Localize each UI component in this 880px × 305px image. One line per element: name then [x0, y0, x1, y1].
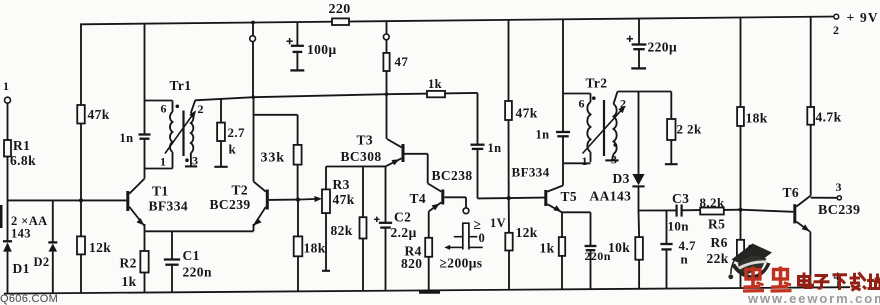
capacitor 100u supply — [286, 22, 336, 70]
svg-text:k: k — [229, 142, 237, 157]
svg-text:3: 3 — [836, 180, 842, 194]
wire 4.7k to T6 collector — [810, 125, 812, 196]
label 10k — [608, 240, 630, 255]
svg-text:6: 6 — [579, 97, 585, 111]
svg-text:2: 2 — [198, 102, 204, 116]
svg-text:+ 9V: + 9V — [847, 10, 879, 25]
potentiometer R3 47k — [322, 177, 355, 213]
resistor 10k detector load — [635, 211, 643, 289]
wiper arrow R3 — [298, 196, 322, 202]
resistor 1k T5 emitter — [540, 212, 566, 289]
svg-text:C2: C2 — [394, 210, 411, 225]
svg-text:220n: 220n — [183, 265, 212, 280]
svg-text:2.2μ: 2.2μ — [391, 225, 417, 240]
svg-text:D1: D1 — [13, 261, 30, 276]
svg-text:1k: 1k — [122, 274, 137, 289]
svg-text:R5: R5 — [708, 217, 725, 232]
wire node to 47 — [386, 40, 388, 53]
ground symbol R4 — [419, 291, 440, 294]
wire R4 to ground — [428, 257, 430, 292]
svg-text:10k: 10k — [608, 240, 630, 255]
svg-text:2: 2 — [833, 23, 839, 37]
svg-text:BF334: BF334 — [149, 199, 189, 214]
wire Tr2 pin6 top — [563, 93, 591, 95]
wire 12k to ground rail — [80, 254, 82, 293]
svg-text:33k: 33k — [261, 151, 286, 166]
resistor 82k — [331, 166, 367, 291]
resistor 33k — [261, 145, 302, 166]
resistor 47k T5 bias — [505, 101, 538, 121]
svg-text:1k: 1k — [428, 77, 442, 91]
wire T3 emitter rail — [326, 165, 386, 167]
wire tank C to pin1 bus — [144, 139, 146, 179]
capacitor 1n Tr2 tank — [536, 94, 571, 164]
watermark www.eeworm.com — [747, 291, 880, 305]
wire mid collector rail — [195, 93, 478, 100]
transformer Tr1 secondary — [191, 100, 195, 166]
svg-text:≥200μs: ≥200μs — [440, 256, 483, 271]
transformer Tr1 core — [182, 111, 184, 157]
wire supply to 47k — [80, 24, 82, 105]
wire ground bottom rail — [4, 287, 850, 293]
wire T5 base — [478, 197, 545, 200]
svg-text:6: 6 — [161, 102, 167, 116]
svg-text:0: 0 — [479, 231, 486, 245]
junction T2 base — [296, 198, 300, 202]
wire mid rail to T2 collector — [253, 97, 255, 181]
node 4 ground terminal — [834, 269, 840, 287]
svg-text:47k: 47k — [516, 106, 538, 121]
svg-text:1V: 1V — [490, 216, 506, 230]
wire Tr1 pin6 top — [145, 100, 173, 102]
svg-text:82k: 82k — [331, 223, 353, 238]
svg-text:8.2k: 8.2k — [700, 195, 725, 210]
wire 33k feed — [254, 115, 298, 145]
svg-text:220n: 220n — [585, 249, 611, 263]
pin 6 Tr1 — [161, 102, 167, 116]
svg-text:D2: D2 — [34, 255, 50, 269]
wire Tr2 pin1 bottom — [563, 162, 591, 164]
tuning arrow Tr1 — [165, 110, 196, 153]
diode D3 AA143 — [590, 92, 645, 211]
svg-text:BC239: BC239 — [818, 203, 860, 218]
transistor T6 BC239 — [783, 185, 861, 232]
wire T6 collector out — [811, 197, 838, 199]
transistor T4 BC238 — [410, 168, 473, 211]
pin 3 Tr1 — [192, 154, 198, 168]
capacitor 1n T5 base — [471, 93, 502, 198]
wire T1 T2 emitter bus — [145, 230, 254, 232]
capacitor 220u supply — [627, 19, 677, 69]
wire T6 emitter to ground — [809, 232, 811, 288]
resistor 2.2k Tr2 damp — [665, 92, 702, 165]
svg-text:4.7k: 4.7k — [816, 110, 842, 125]
wire R6 to ground rail — [740, 257, 742, 288]
svg-text:T3: T3 — [357, 133, 374, 148]
pin 2 Tr1 — [198, 102, 204, 116]
svg-text:R3: R3 — [333, 177, 350, 192]
transistor T1 BF334 — [126, 179, 188, 232]
resistor 12k T5 bias — [505, 225, 538, 251]
resistor R1 6.8k — [4, 138, 36, 168]
wire base bus T1 — [8, 199, 127, 201]
svg-text:100μ: 100μ — [307, 42, 337, 57]
resistor R2 1k emitter — [120, 231, 149, 292]
node 1 input terminal — [3, 79, 11, 103]
wire 47 to mid rail — [386, 71, 388, 94]
svg-text:1k: 1k — [540, 241, 555, 256]
wire T3 base to T4 collector — [405, 154, 428, 184]
svg-text:47k: 47k — [88, 107, 110, 122]
resistor 18k T6 bias — [737, 107, 768, 126]
wire mid rail to T3 collector — [386, 94, 388, 139]
wire R1 to base bus — [7, 157, 9, 242]
junction T1 base — [79, 198, 83, 202]
svg-text:BF334: BF334 — [512, 165, 550, 180]
Tr1 pin3 stub — [185, 165, 197, 167]
wire junction to R6 — [740, 210, 742, 240]
capacitor C2 2.2u — [374, 166, 417, 290]
svg-text:Q606.COM: Q606.COM — [0, 293, 58, 305]
pin 1 Tr2 — [582, 154, 588, 168]
svg-text:2 2k: 2 2k — [677, 122, 702, 137]
svg-text:1n: 1n — [488, 141, 502, 155]
svg-text:1: 1 — [582, 154, 588, 168]
resistor 47k bias — [77, 105, 110, 124]
svg-text:2.7: 2.7 — [228, 125, 246, 140]
polarity dot Tr1 pin6 — [176, 105, 180, 109]
capacitor 220n T5 — [585, 212, 611, 289]
wire Tr1 pin1 bottom — [145, 168, 173, 170]
svg-text:BC239: BC239 — [210, 197, 251, 212]
wire supply to Tr2 pin6 — [562, 19, 564, 93]
diode D1 AA143 — [3, 241, 30, 276]
label Tr2 — [586, 76, 608, 91]
capacitor C3 10n — [668, 191, 690, 234]
svg-text:T5: T5 — [561, 189, 578, 204]
wire supply to tank C — [144, 24, 146, 135]
resistor 2.7k Tr1 damp — [214, 99, 245, 167]
wire R5 to junction — [724, 209, 741, 211]
wire rail to node circle — [252, 23, 254, 36]
svg-text:1n: 1n — [120, 131, 134, 145]
svg-text:220μ: 220μ — [648, 40, 678, 55]
wire junction to 12k — [80, 200, 82, 236]
resistor R5 8.2k — [700, 195, 726, 232]
polarity dot Tr2 pin6 — [592, 96, 596, 100]
pin 2 Tr2 — [620, 97, 626, 111]
svg-text:T1: T1 — [152, 184, 169, 199]
wire T6 base — [741, 210, 794, 212]
svg-text:1: 1 — [160, 155, 166, 169]
resistor 220 supply — [329, 2, 351, 25]
svg-text:1: 1 — [3, 79, 9, 93]
wire 18k to ground rail — [297, 256, 299, 291]
watermark chong chong red glyphs — [743, 267, 792, 292]
watermark Q606.COM — [0, 293, 58, 305]
wire T4 base input — [444, 197, 466, 208]
wire rail to 47 node — [386, 21, 388, 34]
svg-text:Tr2: Tr2 — [586, 76, 608, 91]
resistor R6 22k — [707, 235, 745, 266]
wire D2 branch upper — [52, 200, 54, 242]
capacitor 1n Tr1 tank — [120, 131, 151, 145]
resistor 18k T2 — [294, 236, 326, 256]
junction 47 mid rail — [385, 92, 389, 96]
resistor 1k mid rail — [427, 77, 445, 97]
watermark dianzi xiazaizhan red text — [799, 273, 880, 291]
svg-text:BC308: BC308 — [341, 149, 382, 164]
svg-text:820: 820 — [401, 256, 422, 271]
wire 47k to T5 base — [508, 120, 510, 198]
wire 18k to base junction — [740, 126, 742, 210]
svg-text:www.eeworm.com: www.eeworm.com — [747, 291, 880, 305]
svg-text:AA143: AA143 — [590, 189, 632, 204]
svg-text:BC238: BC238 — [432, 168, 473, 183]
wire 33k to base junction — [297, 165, 299, 200]
pin 3 Tr2 — [611, 153, 617, 167]
transformer Tr2 primary — [587, 94, 590, 163]
svg-text:1n: 1n — [536, 128, 550, 142]
junction mid rail — [252, 95, 256, 99]
transformer Tr2 core — [603, 100, 605, 156]
junction top rail collector feed — [251, 21, 255, 25]
svg-text:C3: C3 — [672, 191, 689, 206]
resistor 47 decoupling — [383, 53, 408, 71]
wire T5 collector — [562, 163, 564, 185]
svg-text:47: 47 — [395, 54, 409, 69]
svg-text:18k: 18k — [304, 241, 326, 256]
svg-text:Tr1: Tr1 — [170, 78, 192, 93]
watermark eeworm cap logo — [728, 244, 772, 280]
svg-text:R2: R2 — [120, 256, 137, 271]
pulse waveform glyph — [440, 216, 507, 271]
svg-text:143: 143 — [11, 227, 31, 241]
capacitor C1 220n — [164, 231, 212, 292]
svg-text:6.8k: 6.8k — [10, 153, 36, 168]
svg-text:≥: ≥ — [474, 217, 482, 232]
junction T6 base — [738, 208, 742, 212]
transformer Tr2 secondary — [612, 92, 618, 161]
Tr2 pin3 stub — [605, 159, 618, 161]
resistor 4.7k T6 load — [807, 107, 841, 125]
wire R3 top — [325, 167, 327, 190]
wire detector node — [639, 209, 677, 211]
diode D2 AA143 — [34, 242, 58, 269]
wire T4 emitter to R4 — [428, 211, 430, 237]
svg-text:T6: T6 — [783, 185, 800, 200]
svg-text:22k: 22k — [707, 251, 729, 266]
svg-text:T4: T4 — [410, 191, 427, 206]
wire +9V top supply rail — [80, 17, 836, 25]
svg-text:18k: 18k — [746, 111, 768, 126]
svg-text:220: 220 — [329, 2, 351, 17]
wire supply to 18k right — [740, 18, 742, 108]
wire C3 to R5 — [682, 209, 701, 211]
wire supply to 47k right — [508, 20, 510, 101]
svg-text:n: n — [681, 252, 689, 267]
wire 47k to junction — [80, 124, 82, 201]
wire node to mid rail — [252, 42, 254, 98]
svg-text:47k: 47k — [333, 192, 355, 207]
wire D2 to ground rail — [52, 252, 54, 294]
wire terminal1 to R1 — [7, 103, 9, 140]
transistor T5 BF334 — [512, 165, 578, 213]
transistor T3 BC308 — [341, 133, 405, 167]
label 2xAA143 — [11, 214, 48, 241]
wire R3 bottom — [322, 213, 330, 271]
wire base to 12k right — [508, 198, 510, 233]
pin 1 Tr1 — [160, 155, 166, 169]
wire D1 to ground rail — [7, 252, 9, 294]
tuning arrow Tr2 — [583, 106, 626, 154]
svg-text:C1: C1 — [183, 248, 200, 263]
junction T5 base divider — [507, 196, 511, 200]
wire Tr2 pin2 out — [618, 91, 672, 93]
resistor 12k bias — [77, 236, 111, 255]
node tap circle — [250, 36, 256, 42]
node circle 47 feed — [383, 34, 389, 40]
svg-text:R6: R6 — [711, 235, 728, 250]
wire junction to 18k — [297, 200, 299, 237]
transformer Tr1 primary — [170, 101, 173, 169]
svg-text:R1: R1 — [13, 138, 30, 153]
wire T5 emitter bus — [562, 211, 591, 213]
resistor R4 820 — [401, 238, 432, 271]
svg-text:12k: 12k — [89, 240, 111, 255]
label Tr1 — [170, 78, 192, 93]
polarity dot Tr2 pin3 — [614, 143, 618, 147]
scan edge artifact — [0, 205, 3, 228]
svg-text:T2: T2 — [232, 183, 249, 198]
pin 6 Tr2 — [579, 97, 585, 111]
node input pulse terminal — [463, 208, 469, 214]
polarity dot Tr1 pin3 — [185, 158, 189, 162]
svg-text:D3: D3 — [613, 171, 630, 186]
node 2 +9V terminal — [833, 10, 879, 37]
wire 12k to ground rail — [508, 251, 510, 290]
node 3 output terminal — [836, 180, 842, 200]
svg-text:12k: 12k — [516, 225, 538, 240]
transistor T2 BC239 — [210, 182, 269, 232]
capacitor 4.7n filter — [660, 210, 696, 288]
svg-text:10n: 10n — [668, 219, 690, 234]
wire T2 base stub — [269, 199, 298, 201]
wire supply to 4.7k — [810, 17, 812, 107]
